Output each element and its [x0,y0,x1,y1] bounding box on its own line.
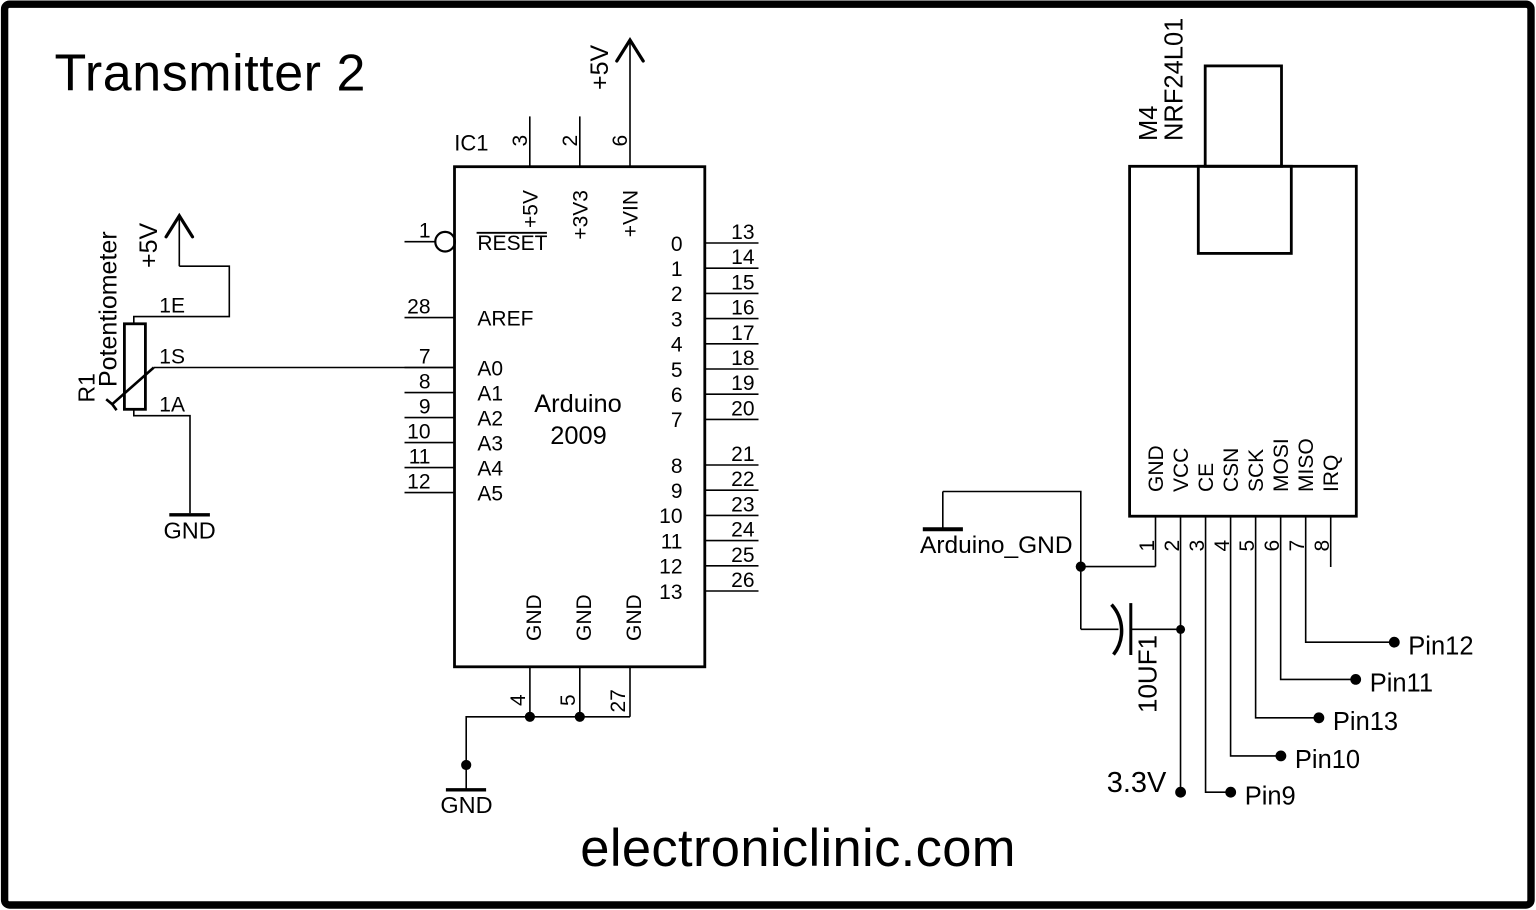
wire Arduino_GND net [943,492,1081,630]
svg-text:15: 15 [731,271,754,294]
junction dot GND stem [461,760,471,770]
pin 6 wire MOSI to Pin11 [1281,516,1356,679]
svg-text:22: 22 [731,468,754,491]
svg-text:2: 2 [559,135,582,147]
pin 10 wire (A3) [405,442,455,444]
svg-text:10: 10 [659,505,682,528]
svg-text:+5V: +5V [135,222,163,268]
node 3.3V dot [1175,787,1186,798]
svg-text:17: 17 [731,322,754,345]
pin 24 wire (digital 11) [705,540,759,542]
pin 12 wire (A5) [405,492,455,494]
svg-text:8: 8 [419,371,431,394]
svg-text:24: 24 [731,519,755,542]
svg-text:IC1: IC1 [454,131,488,156]
svg-text:11: 11 [409,446,431,469]
junction dot Arduino_GND [1076,562,1086,572]
svg-text:23: 23 [731,493,754,516]
svg-text:RESET: RESET [477,232,547,255]
module M4 NRF24L01 body [1130,166,1357,516]
svg-text:12: 12 [407,471,430,494]
wire net 1E (pot to +5V) [134,266,230,324]
wire to M4 pin1 [1081,566,1156,568]
pin 6 wire (+VIN) and +5V power arrow [629,42,631,167]
pin 8 wire (A1) [405,392,455,394]
node Pin10 dot [1276,751,1287,762]
svg-text:8: 8 [671,455,683,478]
node Pin12 dot [1389,637,1400,648]
svg-text:+VIN: +VIN [620,190,643,237]
svg-text:AREF: AREF [477,308,533,331]
svg-text:4: 4 [507,694,530,706]
svg-text:25: 25 [731,544,754,567]
pin 27 wire (GND) [629,667,631,717]
svg-text:9: 9 [671,480,683,503]
svg-text:MOSI: MOSI [1270,438,1293,492]
svg-text:GND: GND [163,518,215,544]
svg-text:3: 3 [671,308,683,331]
svg-text:11: 11 [661,530,683,553]
wire to capacitor C plate [1081,628,1119,630]
svg-text:NRF24L01: NRF24L01 [1160,18,1188,141]
svg-text:Pin9: Pin9 [1245,782,1296,810]
IC IC1 Arduino 2009 body [455,167,705,667]
svg-text:GND: GND [573,594,596,641]
svg-text:26: 26 [731,569,754,592]
potentiometer R1 wiper arrow [112,368,154,405]
capacitor 10UF1 curved plate [1112,605,1122,655]
svg-text:Potentiometer: Potentiometer [95,231,123,387]
pin 11 wire (A4) [405,467,455,469]
svg-text:SCK: SCK [1245,449,1268,492]
svg-text:1E: 1E [159,295,185,318]
svg-text:27: 27 [607,689,630,712]
pin 2 wire VCC to 3.3V [1180,516,1182,792]
pin 19 wire (digital 6) [705,393,759,395]
svg-text:6: 6 [671,384,683,407]
junction dot pin5 [575,712,585,722]
capacitor 10UF1 straight plate [1129,603,1132,655]
svg-text:Pin10: Pin10 [1295,746,1360,774]
svg-text:+3V3: +3V3 [569,190,592,240]
svg-text:5: 5 [557,694,580,706]
node Pin11 dot [1350,674,1361,685]
pin 14 wire (digital 1) [705,267,759,269]
ground symbol (IC1) [446,788,486,791]
wire capacitor to VCC net [1132,628,1181,630]
svg-text:A4: A4 [477,458,503,481]
pin 16 wire (digital 3) [705,318,759,320]
pin 20 wire (digital 7) [705,418,759,420]
inversion bubble pin 1 [435,232,455,252]
svg-text:GND: GND [1145,445,1168,492]
pin 9 wire (A2) [405,417,455,419]
svg-text:3: 3 [509,135,532,147]
svg-text:A2: A2 [477,408,503,431]
svg-text:1S: 1S [159,346,185,369]
junction dot pin4 [525,712,535,722]
svg-text:14: 14 [731,246,755,269]
svg-text:5: 5 [671,359,683,382]
svg-text:4: 4 [671,334,683,357]
pin 4 wire CSN to Pin10 [1231,516,1281,756]
svg-text:7: 7 [671,409,683,432]
svg-text:13: 13 [659,581,682,604]
svg-text:19: 19 [731,372,754,395]
pin 1 wire GND (M4) [1155,516,1157,566]
svg-text:1: 1 [671,258,683,281]
svg-text:1A: 1A [159,394,185,417]
svg-text:2009: 2009 [550,422,606,450]
svg-text:7: 7 [419,346,431,369]
svg-text:Pin11: Pin11 [1370,670,1433,698]
pin 26 wire (digital 13) [705,590,759,592]
pin 25 wire (digital 12) [705,565,759,567]
pin 2 wire (+3V3) [579,116,581,166]
svg-text:A1: A1 [477,383,503,406]
pin 23 wire (digital 10) [705,514,759,516]
ground symbol Arduino_GND [923,527,963,531]
svg-text:28: 28 [407,295,430,318]
svg-text:CE: CE [1195,463,1218,492]
pin 5 wire (GND) [579,667,581,717]
svg-text:16: 16 [731,297,754,320]
pin 7 wire (A0) [405,367,455,369]
svg-text:MISO: MISO [1295,438,1318,492]
pin 13 wire (digital 0) [705,242,759,244]
svg-text:IRQ: IRQ [1320,455,1343,492]
wire net 1A (pot to GND) [134,409,190,513]
svg-text:Transmitter 2: Transmitter 2 [55,45,367,103]
svg-text:6: 6 [609,135,632,147]
wire GND bus under IC1 [466,717,630,789]
svg-text:GND: GND [623,594,646,641]
svg-text:10: 10 [407,421,430,444]
pin 15 wire (digital 2) [705,292,759,294]
svg-text:13: 13 [731,221,754,244]
svg-text:20: 20 [731,397,754,420]
svg-text:M4: M4 [1135,106,1163,141]
pin 3 wire (+5V) [529,116,531,166]
pin 1 wire (RESET) [405,241,436,243]
svg-text:A0: A0 [477,357,503,380]
svg-text:1: 1 [419,220,431,243]
svg-text:GND: GND [523,594,546,641]
module M4 inner block [1198,166,1291,253]
svg-text:Arduino_GND: Arduino_GND [920,532,1073,559]
pin 17 wire (digital 4) [705,343,759,345]
svg-text:Pin13: Pin13 [1333,708,1398,736]
svg-text:GND: GND [440,792,492,818]
svg-text:Arduino: Arduino [534,390,622,418]
svg-text:9: 9 [419,396,431,419]
svg-text:+5V: +5V [519,190,542,228]
svg-text:12: 12 [659,556,682,579]
pin 8 wire IRQ stub [1330,516,1332,567]
module M4 NRF24L01 antenna block [1205,66,1281,166]
svg-text:+5V: +5V [586,44,614,90]
pin 21 wire (digital 8) [705,464,759,466]
svg-text:0: 0 [671,233,683,256]
pin 28 wire (AREF) [405,317,455,319]
pin 22 wire (digital 9) [705,489,759,491]
node Pin9 dot [1225,787,1236,798]
svg-text:3.3V: 3.3V [1107,767,1167,799]
power +5V arrow (R1 net) [178,218,180,267]
svg-text:21: 21 [731,443,754,466]
svg-text:2: 2 [671,283,683,306]
svg-text:A5: A5 [477,483,503,506]
pin 5 wire SCK to Pin13 [1256,516,1319,718]
pin 7 wire MISO to Pin12 [1306,516,1395,642]
node Pin13 dot [1314,712,1325,723]
svg-text:CSN: CSN [1220,448,1243,492]
pin 3 wire CE to Pin9 [1206,516,1231,792]
svg-text:Pin12: Pin12 [1408,632,1473,660]
svg-text:electroniclinic.com: electroniclinic.com [580,819,1016,878]
svg-text:18: 18 [731,347,754,370]
svg-text:VCC: VCC [1170,448,1193,492]
ground symbol (R1) [169,513,210,516]
pin 18 wire (digital 5) [705,368,759,370]
junction dot capacitor/VCC [1176,625,1185,634]
potentiometer R1 body [124,324,145,410]
svg-text:10UF1: 10UF1 [1133,635,1163,713]
pin 4 wire (GND) [529,667,531,717]
wire net 1S (wiper to A0/pin7) [154,367,455,369]
svg-text:A3: A3 [477,433,503,456]
